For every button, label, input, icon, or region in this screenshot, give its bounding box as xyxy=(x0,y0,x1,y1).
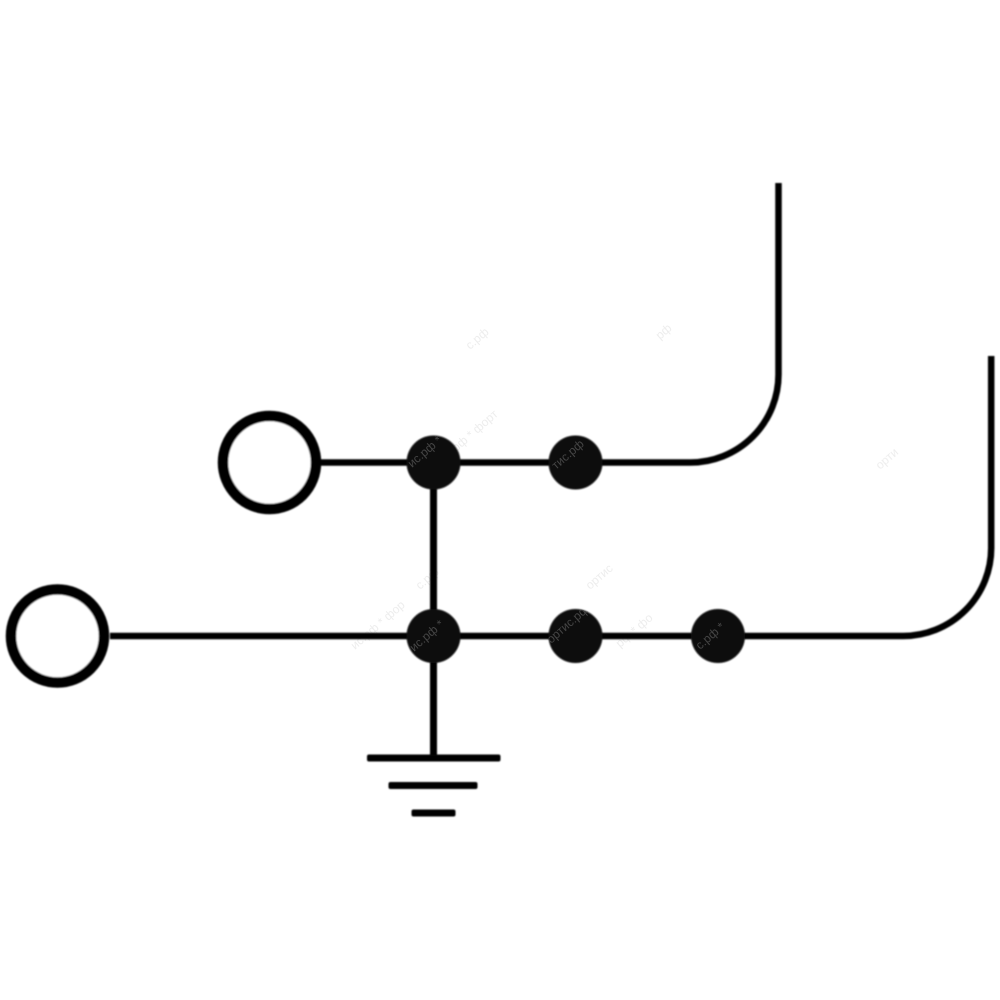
faint watermark texts over the black junction dots xyxy=(405,420,728,654)
ground symbol: bar 3 (bottom, narrowest) xyxy=(412,810,456,817)
ground symbol: bar 1 (top, widest) xyxy=(367,755,501,762)
svg-text:с.рф: с.рф xyxy=(413,565,442,593)
wire: vertical link from upper junction through lower junction to ground xyxy=(430,463,437,757)
terminal T2 (open circle, lower left) xyxy=(11,590,104,683)
terminal T1 (open circle, upper left) xyxy=(223,416,316,509)
svg-text:с.рф: с.рф xyxy=(463,325,492,353)
wire: upper row horizontal from terminal T1 to curve, then up to top xyxy=(321,183,779,463)
svg-text:рф * фо: рф * фо xyxy=(613,610,656,650)
junction dot C (lower row, on vertical link) xyxy=(407,609,461,663)
wire: lower row horizontal from terminal T2 to curve, then up to right edge xyxy=(110,356,991,636)
svg-text:рф: рф xyxy=(653,321,675,343)
junction dot D (lower row, middle) xyxy=(549,609,603,663)
junction dot B (upper row, right) xyxy=(549,436,603,490)
svg-text:ортис: ортис xyxy=(583,561,616,592)
ground symbol: bar 2 (middle) xyxy=(389,782,478,789)
junction dot A (upper row, on vertical link) xyxy=(407,436,461,490)
faint watermark texts on white background xyxy=(348,321,901,653)
svg-text:орти: орти xyxy=(873,445,901,472)
junction dot E (lower row, right) xyxy=(691,609,745,663)
svg-text:ис.рф * фор: ис.рф * фор xyxy=(348,597,408,652)
